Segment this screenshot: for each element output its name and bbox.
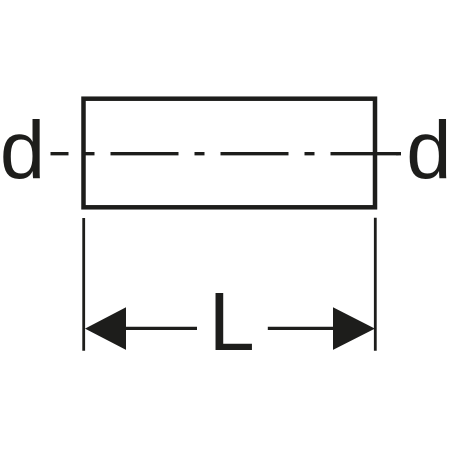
dimension line left segment xyxy=(126,327,197,330)
arrowhead right xyxy=(333,307,375,350)
svg-text:d: d xyxy=(0,105,45,196)
extension line left xyxy=(82,218,85,351)
centerline (dash-dot axis) xyxy=(51,152,402,155)
label d right xyxy=(406,105,450,196)
label L xyxy=(209,275,255,368)
extension line right xyxy=(374,218,377,351)
arrowhead left xyxy=(85,307,126,350)
svg-text:d: d xyxy=(406,105,450,196)
svg-text:L: L xyxy=(209,275,255,368)
centerline final dash end segment xyxy=(396,152,401,155)
label d left xyxy=(0,105,45,196)
pipe body rectangle xyxy=(84,99,376,208)
dimension line right segment xyxy=(268,327,333,330)
